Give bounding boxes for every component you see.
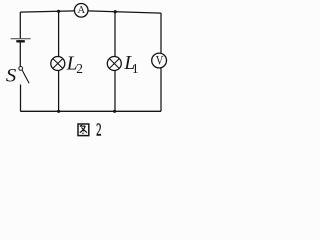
- svg-text:2: 2: [96, 121, 101, 140]
- svg-text:S: S: [6, 65, 17, 86]
- svg-text:2: 2: [76, 61, 83, 76]
- svg-text:A: A: [78, 5, 86, 16]
- svg-text:1: 1: [132, 61, 139, 76]
- svg-text:V: V: [156, 55, 164, 68]
